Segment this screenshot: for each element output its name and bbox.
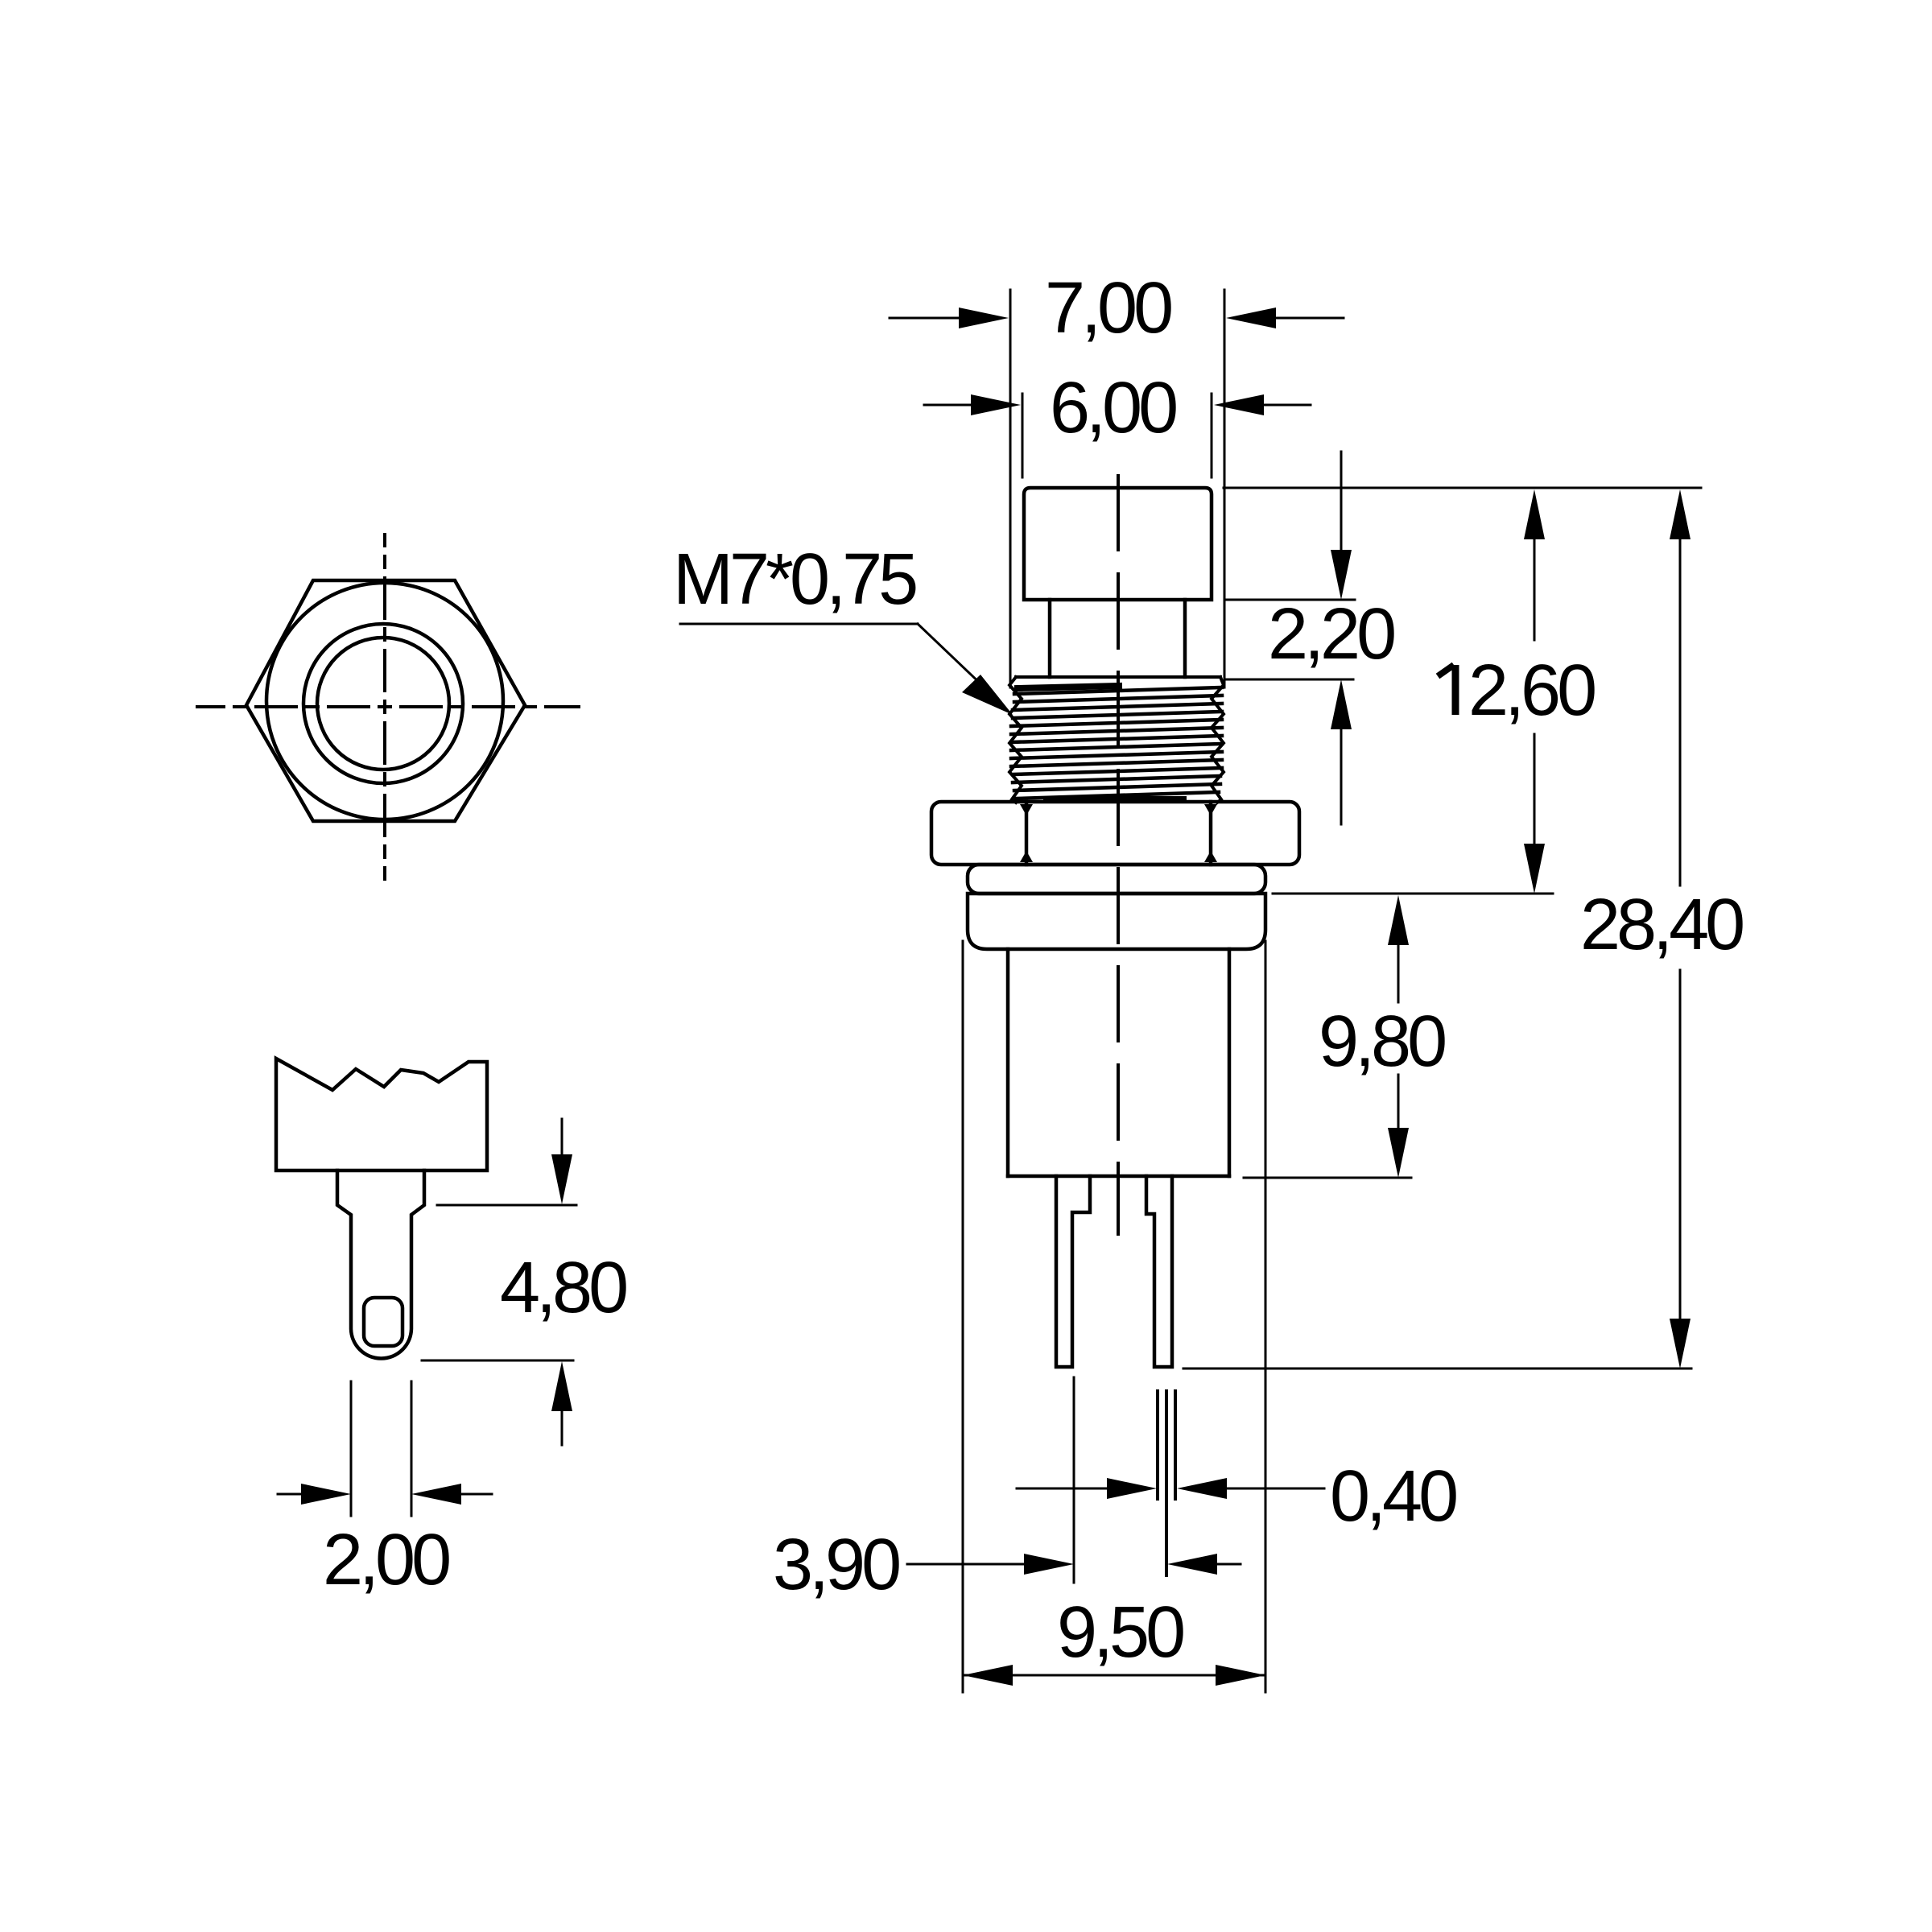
svg-text:4,80: 4,80	[500, 1248, 626, 1328]
dimension 9,50 extension lines	[963, 941, 1265, 1692]
svg-text:28,40: 28,40	[1580, 885, 1743, 965]
leader arrowhead	[962, 675, 1013, 715]
dimension 28,40 dimension line	[1679, 535, 1682, 1323]
nut facet lines	[1025, 802, 1029, 865]
body bottom extension line	[1244, 1177, 1411, 1179]
neck below cap	[1048, 600, 1052, 677]
dimension 7,00 arrowheads	[959, 308, 1276, 328]
vertical centerline (top view)	[383, 535, 386, 879]
label 12,60 (digit 1 drawn as path to match plain CAD glyph)	[1438, 650, 1595, 731]
pin bottom extension line	[1183, 1368, 1691, 1370]
svg-text:6,00: 6,00	[1050, 368, 1176, 448]
button cap	[1024, 488, 1212, 600]
svg-text:3,90: 3,90	[773, 1525, 899, 1605]
dimension 9,80 dimension line	[1397, 942, 1400, 1131]
dimension 0,40 dimension line	[1017, 1488, 1324, 1490]
threaded bushing M7 outline	[1009, 677, 1224, 803]
svg-text:2,20: 2,20	[1268, 594, 1394, 675]
dimension 3,90 extension line	[1073, 1377, 1075, 1583]
svg-text:M7*0,75: M7*0,75	[673, 539, 916, 620]
svg-text:0,40: 0,40	[1330, 1456, 1456, 1537]
main vertical centerline (front view)	[1117, 476, 1120, 1234]
dimension 2,20 dimension line	[1340, 452, 1343, 824]
lug body with break line	[276, 1059, 487, 1170]
left terminal pin	[1056, 1176, 1090, 1367]
dimension 2,20 arrowheads	[1331, 550, 1352, 729]
washer bottom extension line	[1273, 893, 1553, 895]
dimension 6,00 arrowheads	[971, 394, 1264, 415]
dimension 7,00 extension lines	[1010, 290, 1224, 687]
dimension 28,40 arrowheads	[1670, 489, 1690, 1368]
svg-text:9,50: 9,50	[1057, 1592, 1183, 1673]
dimension 4,80 extension lines	[422, 1205, 576, 1360]
dimension 6,00 extension lines	[1022, 394, 1212, 477]
nut chamfer flares	[1020, 804, 1033, 815]
dimension 12,60 arrowheads	[1524, 489, 1545, 894]
button bezel circle	[303, 624, 463, 783]
dimension 2,20 extension lines	[1224, 600, 1355, 679]
dimension 2,00 arrowheads	[301, 1484, 351, 1505]
dimension 7,00 dimension line tails	[890, 317, 1344, 320]
dimension 2,00 dimension line	[278, 1493, 492, 1496]
dimension 6,00 dimension line tails	[924, 404, 1311, 407]
leader line for M7*0,75	[680, 624, 1002, 704]
lug solder hole	[364, 1298, 402, 1346]
horizontal centerline (top view)	[197, 705, 579, 708]
thread shading bands	[1018, 686, 1119, 688]
svg-text:2,00: 2,00	[323, 1520, 449, 1600]
button face circle	[317, 638, 449, 770]
dimension 4,80 arrowheads	[551, 1154, 572, 1204]
lug tab	[337, 1170, 424, 1359]
thread helix lines	[1011, 687, 1222, 799]
dimension 0,40 arrowheads	[1107, 1478, 1227, 1499]
dimension 3,90 arrowheads	[1024, 1554, 1217, 1575]
flange bushing	[968, 894, 1265, 949]
svg-text:2,60: 2,60	[1468, 650, 1595, 731]
solder lug seen edge-on (0,40 thick)	[1158, 1391, 1175, 1575]
dimension 12,60 dimension line	[1534, 535, 1536, 849]
dimension 4,80 dimension line	[561, 1119, 563, 1445]
right terminal pin	[1146, 1176, 1172, 1367]
washer	[968, 865, 1265, 894]
svg-text:9,80: 9,80	[1319, 1001, 1445, 1082]
dimension 9,50 dimension line	[963, 1674, 1265, 1677]
dimension 2,00 extension lines	[351, 1381, 411, 1516]
hex nut (front view)	[931, 802, 1299, 865]
switch body	[1006, 949, 1010, 1176]
nut chamfer circle tangent to flats	[266, 583, 503, 819]
cap top extension line	[1224, 487, 1701, 489]
dimension 9,80 arrowheads	[1388, 895, 1409, 1178]
hex nut outline (top view)	[246, 580, 525, 821]
dimension 3,90 dimension line tails	[907, 1563, 1241, 1566]
svg-text:7,00: 7,00	[1045, 268, 1171, 349]
dimension 9,50 arrowheads	[963, 1665, 1265, 1686]
